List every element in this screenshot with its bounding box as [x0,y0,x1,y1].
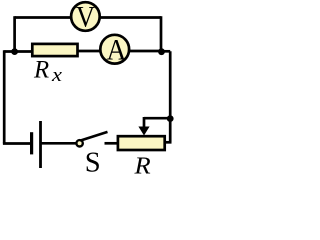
wire top-right vertical [160,16,163,52]
wire slider stem vertical [143,117,146,129]
wire ammeter to right node [129,50,162,53]
arrowhead of rheostat slider [138,127,149,136]
wire right node to right rail [162,50,171,53]
wire Rx to ammeter [78,50,102,53]
battery cell long plate [39,121,42,168]
svg-text:A: A [106,34,126,67]
wire rheostat right stub [165,141,172,144]
voltmeter V1 circle [71,2,100,31]
switch S blade [80,132,107,141]
wire left upper vertical [13,16,16,52]
rheostat R body [118,136,165,150]
junction node rheostat top right [167,115,174,122]
switch S pivot [76,140,82,146]
svg-text:S: S [85,148,101,178]
wire right rail vertical [169,51,172,142]
junction node right of ammeter [158,48,165,55]
ammeter A1 circle [100,35,129,64]
svg-text:V: V [76,1,96,34]
wire bottom left to battery [3,142,31,145]
svg-text:R: R [133,151,151,177]
svg-text:x: x [51,63,63,85]
wire left outer vertical [3,50,6,143]
wire row2 horizontal (node to Rx) [4,50,32,53]
battery cell short plate [30,132,33,154]
svg-text:R: R [33,57,49,84]
resistor Rx body [32,44,77,56]
wire rheostat left stub (switch fixed contact) [105,142,119,145]
wire slider feed horizontal [144,117,170,120]
wire battery to switch [41,142,77,145]
junction node left [11,48,18,55]
wire top horizontal [15,16,161,19]
